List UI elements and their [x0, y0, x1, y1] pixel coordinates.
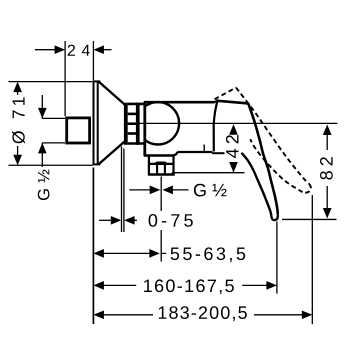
extension line right of dim 24 / wall plane upper segment	[92, 41, 94, 80]
dimension 160-167,5 line right part	[242, 284, 270, 286]
outlet bottom reference line	[172, 172, 245, 174]
dimension 42 up arrowhead	[229, 124, 238, 135]
union thread dim down arrowhead	[38, 108, 47, 119]
dashed handle lever tip	[303, 184, 311, 193]
dimension O71 up arrowhead	[13, 82, 22, 93]
cartridge rib line 5	[128, 142, 144, 145]
dimension 160-167,5 right arrowhead	[266, 281, 277, 290]
escutcheon cone bottom edge	[99, 141, 125, 164]
dimension 55-63,5 left arrowhead	[93, 249, 104, 258]
wall plane line inner	[121, 147, 123, 233]
dimension 24 line right part	[99, 49, 112, 51]
outlet thread dim line left part	[129, 189, 151, 191]
dimension 55-63,5 label	[171, 247, 246, 262]
handle base hidden edge	[203, 145, 205, 152]
dimension 183-200,5 line left part	[100, 314, 153, 316]
valve body bottom edge	[144, 154, 174, 156]
wall plane line outer	[123, 149, 125, 233]
extension line bottom of flange (O71 bottom reference)	[9, 164, 94, 166]
dimension 0-75 right-pointing arrowhead	[111, 216, 122, 225]
dimension 82 up arrowhead	[323, 125, 332, 136]
dimension 160-167,5 left arrowhead	[93, 281, 104, 290]
outlet nut inner facet left	[156, 165, 158, 174]
dimension 55-63,5 line stub	[162, 252, 167, 254]
cartridge rib line 3	[128, 122, 140, 125]
escutcheon cone top edge	[99, 82, 125, 105]
valve body top edge	[144, 101, 215, 104]
cartridge rib line 1	[128, 103, 144, 106]
outlet thread dim line right part	[171, 189, 189, 191]
dimension 82 label	[320, 157, 333, 179]
cartridge right collar bar	[136, 103, 140, 145]
handle top edge	[218, 101, 249, 104]
dimension 160-167,5 label	[144, 279, 234, 294]
outlet thread left-pointing arrowhead	[162, 186, 173, 195]
dashed handle raised back edge	[215, 88, 237, 100]
cartridge rib line 4	[128, 132, 140, 135]
dimension 24 right arrowhead	[93, 45, 104, 54]
thread label G1/2 left	[38, 170, 50, 201]
dimension 24 label	[68, 45, 90, 56]
wall reference line lower segment	[92, 168, 94, 325]
dimension 24 line left part	[35, 49, 60, 51]
dimension 55-63,5 line	[100, 252, 152, 254]
dimension 183-200,5 line right part	[254, 314, 306, 316]
union thread dim vertical line lower segment	[41, 143, 43, 167]
extension line left of dim 24 (union left face)	[64, 41, 66, 116]
handle lever outer edge	[248, 103, 278, 214]
dimension O71 line lower segment	[17, 146, 19, 158]
dimension 0-75 label	[149, 214, 193, 227]
valve body ledge lower segment	[212, 152, 225, 154]
outlet union right edge	[172, 156, 174, 175]
dimension O71 down arrowhead	[13, 155, 22, 166]
dimension 82 line upper segment	[326, 133, 328, 150]
dimension 183-200,5 label	[159, 306, 247, 321]
union nut body	[67, 118, 90, 143]
outlet centerline extension lower	[160, 230, 162, 262]
outlet union bottom edge	[148, 173, 175, 175]
dashed handle lever top edge	[236, 88, 309, 184]
pipe axis centerline	[124, 122, 337, 124]
escutcheon flange back edge	[93, 81, 95, 165]
dimension 82 down arrowhead	[323, 208, 332, 219]
valve body bottom step curve	[173, 152, 178, 156]
escutcheon flange front edge	[97, 81, 99, 164]
valve body bottom ledge	[178, 151, 213, 153]
union thread dim up arrowhead	[38, 143, 47, 154]
union thread dim vertical line upper segment	[41, 95, 43, 118]
handle tip reference line	[282, 218, 337, 220]
handle front edge	[214, 100, 218, 152]
dashed handle tip extension line	[311, 195, 313, 324]
handle lever inner edge	[242, 153, 272, 216]
valve body left edge	[143, 102, 146, 157]
outlet union hex bump	[153, 162, 168, 165]
handle pivot step	[214, 100, 218, 103]
dimension 0-75 line right part	[132, 219, 137, 221]
dimension 183-200,5 right arrowhead	[302, 310, 313, 319]
escutcheon flange bottom edge	[93, 163, 101, 165]
dashed handle lever bottom edge	[250, 139, 302, 192]
dimension 42 label	[226, 135, 239, 158]
cartridge rib line 2	[128, 113, 140, 116]
dimension O71 label	[12, 97, 25, 143]
cartridge left collar bar	[124, 103, 128, 145]
dimension 24 left arrowhead	[55, 45, 66, 54]
dimension 160-167,5 line left part	[100, 284, 136, 286]
handle lever tip	[271, 214, 277, 220]
dimension O71 line upper segment	[17, 90, 19, 95]
outlet centerline extension upper	[160, 177, 162, 212]
dimension 82 line lower segment	[326, 186, 328, 210]
outlet thread right-pointing arrowhead	[150, 186, 161, 195]
dimension 42 line lower segment	[233, 163, 235, 172]
escutcheon flange top edge	[93, 80, 101, 82]
dimension 42 down arrowhead	[229, 162, 238, 173]
dimension 183-200,5 left arrowhead	[93, 310, 104, 319]
thread label G1/2 bottom	[194, 184, 227, 197]
dimension 55-63,5 right arrowhead	[149, 249, 160, 258]
outlet union left edge	[148, 156, 150, 175]
union bottom reference tick	[42, 142, 65, 144]
handle tip extension line	[276, 222, 278, 294]
extension line top of flange (O71 top reference)	[9, 81, 93, 83]
outlet union mid bar	[148, 163, 175, 165]
union top reference tick	[42, 117, 65, 119]
outlet nut inner facet right	[164, 165, 166, 174]
dimension 0-75 line left part	[99, 219, 112, 221]
dimension 0-75 left-pointing arrowhead	[124, 216, 135, 225]
